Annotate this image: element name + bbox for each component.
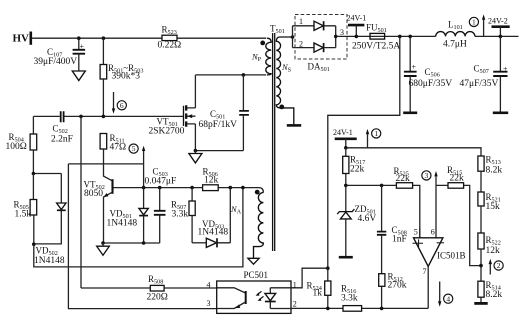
capacitor C506 bbox=[404, 36, 452, 111]
wire R508 riser bbox=[81, 116, 217, 288]
svg-text:NA: NA bbox=[230, 204, 242, 216]
ground (hot) under C107 bbox=[72, 71, 85, 81]
MOSFET VT501 2SK2700 bbox=[149, 75, 196, 151]
capacitor C503 bbox=[145, 167, 177, 244]
resistor R513 bbox=[478, 155, 502, 193]
node VD502/R505 bbox=[32, 242, 36, 246]
svg-text:2SK2700: 2SK2700 bbox=[149, 126, 185, 136]
svg-text:2: 2 bbox=[299, 40, 303, 49]
resistor R523 bbox=[158, 25, 182, 51]
resistor R515 bbox=[447, 165, 464, 188]
phototransistor PC501 left bbox=[217, 288, 246, 309]
svg-text:4: 4 bbox=[446, 294, 450, 303]
svg-text:6: 6 bbox=[431, 228, 435, 237]
resistor R507 bbox=[171, 188, 195, 243]
node base/feedback bbox=[241, 186, 245, 190]
wire 24V feedback down-line bbox=[328, 36, 400, 268]
svg-text:L101: L101 bbox=[448, 20, 463, 32]
svg-text:1N4148: 1N4148 bbox=[34, 256, 65, 266]
annotation arrow 4 bbox=[438, 282, 453, 307]
svg-text:IC501B: IC501B bbox=[437, 250, 466, 260]
svg-text:47μF/35V: 47μF/35V bbox=[460, 79, 499, 89]
svg-text:C502: C502 bbox=[53, 124, 68, 136]
svg-text:24V-1: 24V-1 bbox=[347, 14, 367, 23]
annotation arrow 5 bbox=[129, 144, 145, 188]
node C501 top bbox=[242, 73, 246, 77]
svg-text:0.22Ω: 0.22Ω bbox=[158, 41, 182, 51]
svg-text:6: 6 bbox=[120, 101, 124, 110]
node C107 top bbox=[77, 36, 81, 40]
diode VD501 bbox=[107, 188, 149, 243]
svg-text:22k: 22k bbox=[450, 173, 465, 183]
svg-text:390k*3: 390k*3 bbox=[112, 72, 141, 82]
svg-text:7: 7 bbox=[423, 267, 427, 276]
svg-text:250V/T2.5A: 250V/T2.5A bbox=[352, 42, 400, 52]
resistor R516 bbox=[341, 283, 362, 311]
capacitor C508 bbox=[377, 185, 407, 273]
wire opamp minus row y=185.8 bbox=[436, 185, 481, 265]
wire source row y=150.6 bbox=[195, 150, 243, 152]
resistor R512 bbox=[379, 271, 407, 308]
resistor R505 bbox=[14, 174, 37, 245]
svg-text:R513: R513 bbox=[486, 155, 501, 167]
op-amp IC501B bbox=[413, 185, 466, 276]
svg-text:NS: NS bbox=[281, 62, 292, 74]
diode DA501-1 bbox=[314, 21, 324, 30]
capacitor C501 bbox=[199, 75, 249, 151]
optocoupler PC501 box bbox=[207, 270, 297, 313]
node C507 top bbox=[499, 35, 503, 39]
ground (hot) under VT501 bbox=[189, 151, 202, 163]
wire DA501 output join bbox=[324, 26, 336, 48]
diode VD502 bbox=[34, 174, 66, 266]
svg-text:DA501: DA501 bbox=[308, 62, 330, 74]
winding NS bbox=[276, 37, 294, 125]
wire HV rail y=38.2 bbox=[32, 37, 267, 39]
svg-text:220Ω: 220Ω bbox=[147, 292, 168, 302]
svg-text:FU501: FU501 bbox=[366, 23, 387, 34]
svg-text:1N4148: 1N4148 bbox=[198, 228, 229, 238]
svg-text:4.6V: 4.6V bbox=[358, 214, 377, 224]
ground (cold bar) under C507 bbox=[493, 112, 508, 115]
node R522/R514/R515 bbox=[479, 264, 483, 268]
wire bottom rail y=305.5 bbox=[291, 307, 428, 309]
svg-text:39μF/400V: 39μF/400V bbox=[34, 57, 78, 67]
node gate/R508 riser bbox=[79, 115, 83, 119]
resistor R524 bbox=[307, 268, 331, 308]
resistor R504 bbox=[6, 116, 37, 173]
svg-text:R523: R523 bbox=[162, 25, 177, 37]
node NS top bbox=[291, 35, 295, 39]
power rail 24V-1 second bbox=[333, 128, 357, 148]
svg-text:680μF/35V: 680μF/35V bbox=[409, 79, 453, 89]
ground (hot) under VT502 bbox=[97, 243, 110, 255]
wire feedback A bbox=[34, 188, 243, 267]
svg-text:1: 1 bbox=[472, 18, 476, 27]
svg-text:22k: 22k bbox=[396, 174, 411, 184]
svg-text:24V-1: 24V-1 bbox=[333, 128, 353, 137]
svg-text:2: 2 bbox=[293, 300, 297, 309]
resistor R511 bbox=[100, 133, 126, 152]
svg-text:8050: 8050 bbox=[84, 189, 103, 199]
wire R504 junction row y=173.5 bbox=[33, 173, 61, 175]
wire pin1 riser bbox=[291, 268, 328, 288]
svg-text:R508: R508 bbox=[148, 274, 163, 286]
svg-text:12k: 12k bbox=[204, 175, 219, 185]
resistor R501~R503 bbox=[100, 38, 143, 116]
diode VD503 bbox=[192, 188, 230, 248]
light arrows bbox=[256, 291, 264, 301]
node down-line bbox=[398, 35, 402, 39]
svg-text:1: 1 bbox=[374, 129, 378, 138]
capacitor C507 bbox=[460, 36, 509, 111]
svg-text:4.7μH: 4.7μH bbox=[443, 40, 467, 50]
svg-text:+: + bbox=[503, 65, 508, 74]
rectifier DA501 dashed box bbox=[295, 15, 347, 74]
wire pin3 riser bbox=[68, 164, 216, 309]
resistor R521 bbox=[478, 192, 501, 233]
wire collector tap y=163.9 bbox=[68, 163, 143, 165]
svg-text:1nF: 1nF bbox=[392, 234, 407, 244]
node gate row bbox=[102, 115, 106, 119]
svg-text:2: 2 bbox=[497, 261, 501, 270]
node base/C503 bbox=[158, 186, 162, 190]
svg-text:HV: HV bbox=[13, 33, 30, 45]
wire 24V rail y=36.4 bbox=[336, 35, 519, 37]
svg-text:R522: R522 bbox=[486, 235, 501, 247]
annotation arrow 3 bbox=[422, 171, 438, 186]
power rail 24V-1 bbox=[347, 14, 367, 39]
svg-text:PC501: PC501 bbox=[244, 270, 269, 280]
ground (cold bar) under NS bbox=[287, 124, 301, 127]
resistor R517 bbox=[343, 148, 366, 186]
annotation arrow 1a bbox=[469, 14, 485, 36]
svg-text:+: + bbox=[80, 42, 85, 51]
node base/VD503 bbox=[229, 186, 233, 190]
svg-text:47Ω: 47Ω bbox=[110, 142, 127, 152]
svg-text:T501: T501 bbox=[270, 24, 285, 36]
fuse FU501 bbox=[352, 23, 400, 52]
node C506 top bbox=[408, 35, 412, 39]
svg-text:1.5k: 1.5k bbox=[15, 209, 32, 219]
wire gate row y=115.5 bbox=[33, 115, 183, 117]
winding Np bbox=[251, 38, 271, 75]
svg-text:NP: NP bbox=[251, 52, 262, 64]
LED PC501 right bbox=[265, 288, 291, 309]
transistor VT502 8050 bbox=[84, 149, 113, 243]
svg-text:68pF/1kV: 68pF/1kV bbox=[199, 120, 238, 130]
svg-text:4: 4 bbox=[207, 280, 211, 289]
svg-text:2.2nF: 2.2nF bbox=[51, 134, 73, 144]
node base/VD501 bbox=[142, 186, 146, 190]
svg-text:3.3k: 3.3k bbox=[172, 209, 189, 219]
wire emitter rail y=243 bbox=[103, 242, 160, 244]
diode DA501-2 bbox=[314, 43, 324, 52]
svg-text:C507: C507 bbox=[474, 63, 489, 75]
wire DA501 input bbox=[293, 26, 315, 48]
svg-text:12k: 12k bbox=[486, 246, 501, 256]
HV terminal bbox=[13, 32, 31, 45]
wire 24V-1 row y=147.8 bbox=[346, 148, 481, 156]
zener ZD501 bbox=[337, 185, 376, 256]
resistor R514 bbox=[478, 280, 502, 302]
resistor R522 bbox=[478, 233, 501, 281]
node R501 top bbox=[102, 36, 106, 40]
svg-text:5: 5 bbox=[414, 228, 418, 237]
svg-text:22k: 22k bbox=[350, 164, 365, 174]
power rail 24V-2 bbox=[488, 16, 510, 36]
node base/R507 bbox=[190, 186, 194, 190]
winding NA bbox=[230, 190, 263, 259]
wire drain row y=74.9 bbox=[195, 74, 266, 76]
ground (cold bar) under ZD501 bbox=[339, 256, 353, 259]
resistor R525 bbox=[394, 166, 413, 188]
svg-text:3.3k: 3.3k bbox=[341, 294, 358, 304]
svg-text:5: 5 bbox=[132, 144, 136, 153]
svg-text:8.2k: 8.2k bbox=[486, 290, 503, 300]
svg-text:3: 3 bbox=[207, 299, 211, 308]
annotation arrow 6 bbox=[112, 92, 127, 114]
inductor L101 bbox=[436, 20, 475, 50]
capacitor C502 bbox=[51, 111, 73, 144]
ground (cold bar) under C506 bbox=[403, 112, 417, 115]
svg-text:3: 3 bbox=[340, 28, 344, 37]
transformer T501 core bbox=[270, 24, 285, 252]
wire base row y=187.6 bbox=[113, 188, 263, 193]
annotation arrow 1b bbox=[366, 129, 381, 148]
svg-text:C506: C506 bbox=[425, 67, 440, 79]
svg-text:15k: 15k bbox=[486, 202, 501, 212]
svg-text:100Ω: 100Ω bbox=[6, 142, 27, 152]
ground (cold bar) under R514 bbox=[474, 302, 487, 305]
capacitor C107 bbox=[34, 38, 86, 71]
wire opamp plus row y=184.8 bbox=[346, 185, 420, 237]
wire pin7 output bbox=[427, 266, 429, 308]
node feedback/24V line bbox=[326, 266, 330, 270]
svg-text:1: 1 bbox=[299, 17, 303, 26]
resistor R508 bbox=[147, 274, 168, 302]
annotation arrow 2 bbox=[489, 259, 504, 275]
svg-text:8.2k: 8.2k bbox=[486, 166, 503, 176]
svg-text:24V-2: 24V-2 bbox=[488, 16, 508, 25]
ground (hot) under NA bbox=[248, 258, 259, 264]
svg-text:270k: 270k bbox=[388, 281, 407, 291]
svg-text:1N4148: 1N4148 bbox=[107, 218, 138, 228]
svg-text:0.047μF: 0.047μF bbox=[145, 176, 177, 186]
svg-text:1k: 1k bbox=[313, 288, 323, 298]
svg-text:3: 3 bbox=[425, 171, 429, 180]
resistor R506 bbox=[203, 166, 219, 190]
svg-text:+: + bbox=[412, 63, 417, 72]
